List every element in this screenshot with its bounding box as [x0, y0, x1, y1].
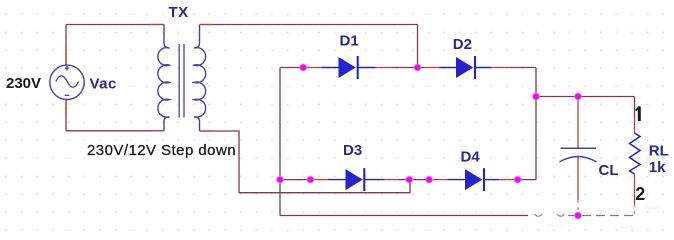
wire transformer secondary bottom path: [200, 131, 411, 193]
pin 1: [636, 107, 640, 122]
junction node row2 left: [277, 176, 284, 183]
diode D3: [328, 168, 385, 191]
junction node bottom CL: [575, 212, 582, 219]
svg-text:D2: D2: [453, 36, 472, 53]
wire row1 left: [280, 67, 306, 69]
wire output rail: [536, 96, 635, 98]
wire RL bottom lead: [634, 174, 636, 216]
junction node row1 left: [300, 64, 307, 71]
svg-text:D3: D3: [343, 142, 362, 159]
svg-text:CL: CL: [599, 162, 619, 179]
wire row2 red to D3: [314, 179, 328, 181]
wire D1 to node: [376, 67, 418, 69]
wire down to D1-D2 node: [417, 25, 419, 68]
wire RL top lead: [634, 97, 636, 134]
svg-text:2: 2: [635, 184, 645, 204]
svg-text:230V/12V Step down: 230V/12V Step down: [87, 142, 236, 159]
diode D2: [440, 56, 492, 79]
wire node to node: [409, 179, 429, 181]
wire CL top lead: [577, 97, 579, 149]
svg-text:230V: 230V: [6, 75, 41, 92]
wire D3 to node: [385, 179, 410, 181]
diode D4: [448, 168, 500, 191]
junction node rail left: [533, 93, 540, 100]
svg-text:RL: RL: [649, 142, 669, 159]
voltage source V1 230V: [50, 65, 84, 99]
junction node D4 anode: [426, 176, 433, 183]
wire source top lead: [65, 25, 67, 66]
resistor RL: [630, 133, 641, 174]
wire transformer secondary top: [200, 24, 418, 26]
wire node to D4: [433, 179, 448, 181]
capacitor CL: [560, 148, 597, 162]
wire left bridge vertical: [279, 68, 281, 216]
junction node D4 cathode: [514, 176, 521, 183]
wire row1 red to D1: [306, 67, 322, 69]
wire source bottom to transformer: [66, 130, 164, 132]
svg-text:D1: D1: [340, 32, 359, 49]
wire CL bottom lead: [577, 159, 579, 216]
junction node D1-D2: [414, 64, 421, 71]
wire D4 to right corner: [499, 179, 536, 181]
svg-text:Vac: Vac: [90, 75, 117, 92]
wire bottom rail: [280, 214, 635, 216]
wire node to D2: [418, 67, 440, 69]
svg-text:TX: TX: [169, 4, 189, 21]
wire source top to transformer: [66, 24, 164, 26]
wire row2 left: [280, 179, 311, 181]
transformer TX: [158, 25, 206, 132]
svg-text:D4: D4: [461, 148, 481, 165]
junction node row2: [307, 176, 314, 183]
junction node D3-D4: [406, 176, 413, 183]
svg-text:1k: 1k: [649, 159, 666, 176]
diode D1: [322, 56, 376, 79]
faint watermark remnants: [545, 206, 660, 229]
wire source bottom lead: [65, 99, 67, 130]
junction node rail CL: [575, 93, 582, 100]
wire right bridge vertical: [535, 68, 537, 180]
wire D2 to right corner: [491, 67, 536, 69]
